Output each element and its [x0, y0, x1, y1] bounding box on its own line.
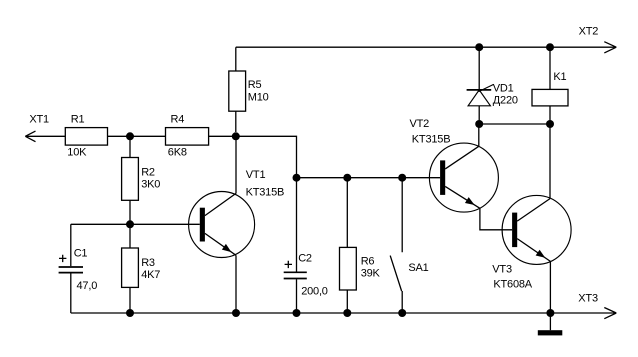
svg-text:R2: R2 — [141, 167, 155, 179]
node VD1 bottom junction — [475, 120, 483, 128]
wire VT2 emitter to VT3 base — [480, 208, 512, 230]
node VD1 top junction — [475, 43, 483, 51]
svg-text:XT1: XT1 — [29, 114, 49, 126]
wire node B to mid rail corner — [236, 136, 297, 177]
svg-text:47,0: 47,0 — [77, 280, 98, 292]
capacitor C1 — [59, 224, 83, 313]
node K1 top junction — [546, 43, 554, 51]
node E junction — [343, 174, 351, 182]
wire VT1 emitter to bottom rail — [235, 255, 237, 313]
node bottom R6 junction — [343, 309, 351, 317]
svg-text:10K: 10K — [67, 147, 87, 159]
wire VT3 collector — [549, 124, 551, 199]
svg-text:C2: C2 — [298, 253, 312, 265]
plus sign C2 — [285, 261, 292, 268]
resistor R5 — [229, 47, 246, 132]
node D junction — [293, 174, 301, 182]
svg-text:4K7: 4K7 — [141, 269, 160, 281]
wire VD1 to K1 link — [479, 123, 550, 125]
svg-text:VT1: VT1 — [246, 169, 266, 181]
wire R1 to node A — [108, 135, 166, 137]
transistor VT3 — [502, 195, 571, 264]
svg-text:200,0: 200,0 — [301, 286, 328, 298]
node B junction — [232, 132, 240, 140]
wire bottom rail — [71, 312, 616, 314]
svg-text:3K0: 3K0 — [141, 179, 160, 191]
terminal XT2 arrow — [604, 42, 616, 53]
svg-text:M10: M10 — [248, 91, 269, 103]
node K1 bottom junction — [546, 120, 554, 128]
wire R4 to node B — [209, 135, 236, 137]
wire mid rail — [297, 177, 441, 179]
wire top rail — [236, 46, 616, 48]
transistor VT1 — [189, 192, 255, 258]
node bottom SA1 junction — [398, 309, 406, 317]
node F junction — [398, 174, 406, 182]
node bottom VT1 junction — [232, 309, 240, 317]
svg-text:SA1: SA1 — [408, 262, 428, 274]
resistor R2 — [122, 136, 139, 224]
svg-text:Д220: Д220 — [493, 94, 518, 106]
svg-text:KT608A: KT608A — [493, 279, 532, 291]
svg-text:VT2: VT2 — [410, 118, 430, 130]
svg-text:KT315B: KT315B — [246, 186, 285, 198]
wire VT1 collector — [235, 136, 237, 193]
resistor R3 — [122, 224, 139, 313]
node A junction — [126, 132, 134, 140]
svg-text:R5: R5 — [248, 79, 262, 91]
terminal XT1 arrow — [25, 131, 65, 142]
resistor R1 — [65, 128, 107, 146]
plus sign C1 — [59, 255, 66, 262]
svg-text:R3: R3 — [141, 257, 155, 269]
wire base row C1 to VT1 — [71, 223, 200, 225]
svg-text:R1: R1 — [71, 114, 85, 126]
svg-text:XT2: XT2 — [579, 26, 599, 38]
resistor R6 — [340, 178, 357, 313]
wire VT3 emitter to bottom rail — [549, 261, 551, 313]
svg-text:VT3: VT3 — [492, 263, 512, 275]
resistor R4 — [166, 128, 209, 146]
svg-text:6K8: 6K8 — [168, 147, 187, 159]
relay coil K1 — [532, 47, 568, 124]
svg-text:39K: 39K — [361, 267, 381, 279]
svg-text:XT3: XT3 — [578, 292, 598, 304]
node bottom C2 junction — [293, 309, 301, 317]
svg-text:KT315B: KT315B — [412, 134, 451, 146]
diode VD1 — [467, 47, 494, 124]
transistor VT2 — [429, 143, 498, 212]
terminal XT3 arrow — [604, 308, 616, 319]
node bottom VT3 junction — [546, 309, 554, 317]
svg-text:VD1: VD1 — [493, 82, 514, 94]
ground — [538, 313, 563, 335]
node C junction — [126, 220, 134, 228]
switch SA1 — [390, 178, 402, 313]
svg-text:R4: R4 — [171, 114, 185, 126]
node bottom R3 junction — [126, 309, 134, 317]
svg-text:R6: R6 — [361, 256, 375, 268]
svg-text:C1: C1 — [74, 248, 88, 260]
wire VT2 collector — [478, 124, 480, 146]
svg-text:K1: K1 — [553, 71, 566, 83]
capacitor C2 — [284, 178, 307, 313]
